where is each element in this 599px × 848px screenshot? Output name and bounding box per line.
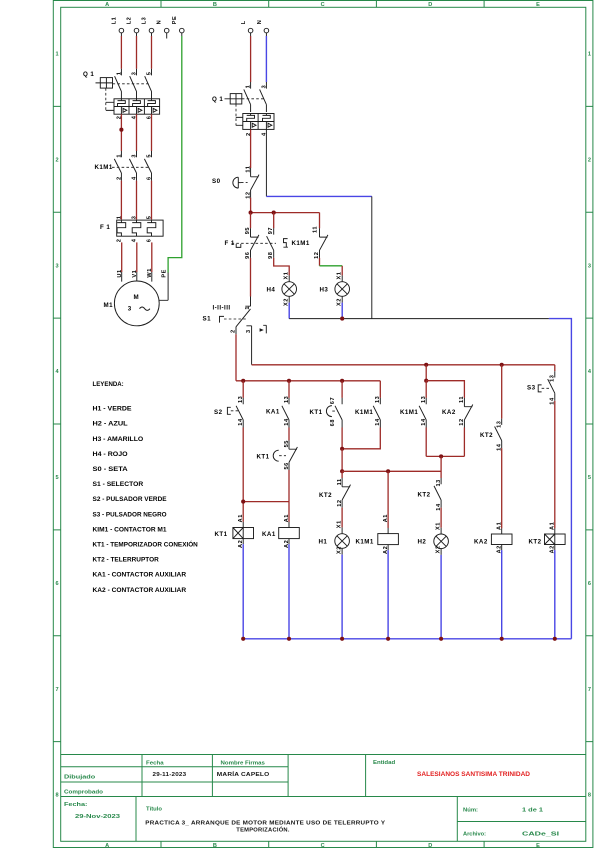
svg-text:68: 68 <box>330 419 336 426</box>
svg-text:3: 3 <box>56 263 59 269</box>
breaker Q1 magnetic elements <box>121 107 156 115</box>
terminal L1 <box>119 28 124 33</box>
wire split to K1M1 contact 2 <box>425 381 427 398</box>
svg-text:14: 14 <box>284 418 290 426</box>
breaker Q1 control handle box <box>225 94 242 104</box>
svg-text:L1: L1 <box>111 17 117 25</box>
breaker Q1 control pole 1 <box>244 82 251 112</box>
coil KA2 <box>491 534 512 545</box>
svg-text:1: 1 <box>588 52 591 58</box>
breaker Q1 control magnetic elements <box>251 122 272 130</box>
K1M1 linkage <box>112 166 149 168</box>
motor M1 <box>114 281 159 326</box>
breaker Q1 pole 1 <box>115 69 122 99</box>
svg-text:X1: X1 <box>435 522 441 530</box>
svg-text:5: 5 <box>146 72 152 76</box>
svg-text:D: D <box>428 843 432 848</box>
wire rail1 to KT1 <box>341 381 343 398</box>
wire K1M1 coil to rail <box>387 545 389 551</box>
svg-text:67: 67 <box>330 397 336 404</box>
pushbutton S3 contact <box>548 371 555 401</box>
svg-text:2: 2 <box>56 157 59 163</box>
svg-text:13: 13 <box>497 421 503 428</box>
pushbutton S2 contact <box>236 398 243 428</box>
svg-text:H4: H4 <box>267 287 276 294</box>
contact KA1 13-14 <box>282 398 289 428</box>
S0 link <box>238 182 241 184</box>
wire KT2 coil to rail <box>554 545 556 551</box>
wire to F1 97 <box>273 213 275 229</box>
wire F1 98 to H4 <box>274 258 290 276</box>
wire L3 top <box>151 33 153 36</box>
svg-text:D: D <box>428 2 432 8</box>
junction dot rail2 K1M1 branch <box>424 363 428 367</box>
svg-text:Núm:: Núm: <box>463 808 478 814</box>
svg-text:L: L <box>241 20 247 24</box>
selector S1 <box>236 297 266 365</box>
wire L1 top <box>120 33 122 36</box>
svg-text:Nombre Firmas: Nombre Firmas <box>221 761 265 767</box>
terminal N <box>164 28 169 33</box>
svg-text:Archivo:: Archivo: <box>463 832 486 838</box>
frame ruler numbers right <box>588 52 592 799</box>
svg-text:5: 5 <box>146 216 152 220</box>
svg-text:1: 1 <box>116 72 122 76</box>
terminal L3 <box>149 28 154 33</box>
svg-text:3: 3 <box>131 72 137 76</box>
wire F1 to motor V <box>136 242 138 272</box>
overload relay F1 box <box>117 220 163 236</box>
svg-text:KT2: KT2 <box>418 491 431 498</box>
wire K1M1 to F1 L3 <box>151 181 153 220</box>
svg-text:14: 14 <box>421 418 427 426</box>
wire KT2 12 to H1 <box>341 508 343 528</box>
svg-text:Comprobado: Comprobado <box>64 790 103 796</box>
svg-text:TEMPORIZACIÓN.: TEMPORIZACIÓN. <box>236 825 289 833</box>
svg-text:1: 1 <box>56 52 59 58</box>
node L distribution <box>251 212 320 214</box>
svg-text:S3: S3 <box>527 384 536 391</box>
svg-text:S3 - PULSADOR NEGRO: S3 - PULSADOR NEGRO <box>93 511 167 518</box>
svg-text:E: E <box>536 2 540 8</box>
wire rail1 to K1M1 contact <box>379 381 381 398</box>
wire K1M1 12 down <box>319 258 321 266</box>
svg-text:KT2 - TELERRUPTOR: KT2 - TELERRUPTOR <box>93 557 160 564</box>
wire node down <box>341 449 343 472</box>
svg-text:F 1: F 1 <box>100 224 110 231</box>
contact K1M1 11-12 <box>320 228 328 258</box>
svg-text:6: 6 <box>146 176 152 180</box>
wire F1 96 to S1 <box>250 258 252 297</box>
contact KT2 11-12 <box>342 478 350 508</box>
svg-text:11: 11 <box>459 396 465 403</box>
svg-text:A1: A1 <box>550 522 556 530</box>
svg-text:N: N <box>157 20 163 25</box>
svg-text:13: 13 <box>421 396 427 403</box>
wire down to H3 <box>341 266 343 276</box>
rail 3 <box>342 470 441 472</box>
svg-text:KA1: KA1 <box>262 531 276 538</box>
svg-text:M1: M1 <box>104 302 114 309</box>
junction dot <box>340 637 344 641</box>
wire S3 to KT2 coil <box>554 401 556 529</box>
svg-text:12: 12 <box>337 499 343 506</box>
svg-text:29-11-2023: 29-11-2023 <box>153 772 187 778</box>
svg-text:X2: X2 <box>336 546 342 554</box>
wire to K1M1 11 <box>319 213 321 229</box>
contactor K1M1 pole 1-2 <box>114 151 121 181</box>
svg-text:L3: L3 <box>142 17 148 25</box>
junction dot <box>241 637 245 641</box>
contactor K1M1 pole 5-6 <box>144 151 151 181</box>
wire K1M1 to F1 L2 <box>136 181 138 220</box>
contact KT2 13-14 mid <box>434 478 441 508</box>
svg-text:55: 55 <box>284 440 290 447</box>
wire S1 pin3 rail 2 <box>252 364 555 366</box>
svg-text:H2 - AZUL: H2 - AZUL <box>93 421 128 428</box>
svg-text:13: 13 <box>238 396 244 403</box>
contact KA2 11-12 <box>464 398 472 428</box>
K1M1 aux bracket <box>283 239 288 248</box>
svg-text:A1: A1 <box>284 514 290 522</box>
terminal L control <box>248 28 253 33</box>
coil KA1 <box>279 528 300 539</box>
svg-text:X1: X1 <box>336 520 342 528</box>
svg-text:3: 3 <box>131 216 137 220</box>
wire F1 to motor U <box>121 242 123 272</box>
lamp return rail blue <box>549 319 572 639</box>
wire L Q1 to S0 <box>250 129 252 168</box>
svg-text:56: 56 <box>284 462 290 469</box>
wire pair down <box>440 456 442 478</box>
F1 thermal elements <box>117 220 156 236</box>
svg-text:13: 13 <box>436 479 442 486</box>
frame ruler numbers left <box>56 52 60 799</box>
svg-text:Dibujado: Dibujado <box>64 775 96 781</box>
svg-text:B: B <box>213 843 217 848</box>
svg-text:X1: X1 <box>284 272 290 280</box>
svg-text:KA1 - CONTACTOR AUXILIAR: KA1 - CONTACTOR AUXILIAR <box>93 572 187 579</box>
node S2-KA1 <box>243 501 289 503</box>
wire S2 down to node <box>242 428 244 502</box>
svg-text:6: 6 <box>146 239 152 243</box>
contact F1 97-98 <box>267 228 274 258</box>
wire L down to Q1 <box>250 33 252 36</box>
svg-text:5: 5 <box>146 154 152 158</box>
svg-text:K1M1: K1M1 <box>292 240 310 247</box>
junction dot parallel split <box>424 379 428 383</box>
svg-text:H1 - VERDE: H1 - VERDE <box>93 406 133 413</box>
svg-text:CADe_SI: CADe_SI <box>522 832 560 838</box>
wire N down to Q1 <box>265 33 267 36</box>
KT1 55 link <box>279 455 286 457</box>
svg-text:3: 3 <box>588 263 591 269</box>
svg-text:C: C <box>321 2 325 8</box>
svg-text:95: 95 <box>245 227 251 234</box>
wire rail2 to S3 <box>554 365 556 371</box>
breaker Q1 control thermal elements <box>247 114 271 122</box>
wire K1M1 14 to node <box>342 428 380 449</box>
svg-text:2: 2 <box>116 239 122 243</box>
wire S1 pin2 down <box>235 334 237 381</box>
svg-text:K1M1: K1M1 <box>355 409 373 416</box>
wire KT1 56 down <box>288 470 290 502</box>
frame ruler letters bottom <box>105 843 540 848</box>
junction dot KT1 <box>340 379 344 383</box>
wire KA2 coil to rail <box>501 545 503 551</box>
svg-text:X2: X2 <box>435 545 441 553</box>
lamp H4 <box>282 282 297 297</box>
lamp H3 <box>335 282 350 297</box>
S1 link <box>224 318 246 320</box>
junction dot <box>241 500 245 504</box>
wire split to KA2 contact <box>426 381 464 398</box>
svg-text:K1M1: K1M1 <box>356 539 374 546</box>
svg-text:8: 8 <box>56 793 59 799</box>
junction dot H3 return <box>340 317 344 321</box>
wire S0 to node <box>250 198 252 213</box>
svg-text:H3 - AMARILLO: H3 - AMARILLO <box>93 436 144 443</box>
svg-text:98: 98 <box>268 252 274 259</box>
coil KT2 <box>545 534 566 545</box>
svg-text:MARÍA CAPELO: MARÍA CAPELO <box>217 770 270 778</box>
svg-text:12: 12 <box>314 252 320 259</box>
svg-text:KT1: KT1 <box>257 454 270 461</box>
junction dot rail3 <box>340 469 344 473</box>
S1 handle <box>220 316 225 322</box>
wire N down black <box>371 196 373 318</box>
wire K1M1 to F1 L1 <box>120 181 122 220</box>
svg-text:A1: A1 <box>238 514 244 522</box>
svg-text:5: 5 <box>588 475 591 481</box>
terminal PE <box>180 28 185 33</box>
wire Q1 to K1M1 L2 <box>136 114 138 151</box>
breaker Q1 control trip box <box>236 114 274 130</box>
svg-text:S0: S0 <box>212 178 221 185</box>
wire N pole down <box>265 129 267 196</box>
svg-text:3: 3 <box>128 305 132 312</box>
svg-text:1: 1 <box>116 216 122 220</box>
svg-text:3: 3 <box>261 85 267 89</box>
junction dot <box>386 637 390 641</box>
contact K1M1 13-14 <box>373 398 380 428</box>
svg-text:S1: S1 <box>203 316 212 323</box>
svg-text:B: B <box>213 2 217 8</box>
title block texts <box>64 760 560 838</box>
svg-text:KT2: KT2 <box>319 492 332 499</box>
svg-text:KA2: KA2 <box>442 409 456 416</box>
wire rail2 to KT2 contact <box>501 365 503 419</box>
junction dot K1M1 coil <box>386 469 390 473</box>
PE black lead into motor <box>159 273 168 301</box>
svg-text:1: 1 <box>245 306 251 310</box>
contact KT1 55-56 timed <box>289 440 297 470</box>
wire H4 X2 blue <box>288 296 290 302</box>
junction dot KA1 <box>287 379 291 383</box>
wire L2 top <box>136 33 138 36</box>
rail 1 from S1 pin2 <box>236 380 380 382</box>
lamp H2 <box>434 534 449 549</box>
wire KA1 coil to rail <box>288 539 290 545</box>
coil K1M1 <box>378 534 399 545</box>
KT1 link <box>332 410 338 412</box>
svg-text:5: 5 <box>56 475 59 481</box>
svg-text:KT2: KT2 <box>480 432 493 439</box>
svg-text:X1: X1 <box>337 272 343 280</box>
svg-text:A: A <box>105 843 109 848</box>
contactor K1M1 pole 3-4 <box>129 151 136 181</box>
terminal L2 <box>134 28 139 33</box>
emergency stop S0 contact <box>251 168 259 198</box>
svg-text:7: 7 <box>588 687 591 693</box>
svg-text:Título: Título <box>146 807 162 813</box>
wire PE green <box>181 33 183 36</box>
svg-text:L2: L2 <box>127 17 133 25</box>
title block grid <box>61 755 586 842</box>
svg-text:11: 11 <box>337 478 343 485</box>
svg-text:14: 14 <box>375 418 381 426</box>
svg-text:1: 1 <box>246 85 252 89</box>
svg-text:K1M1: K1M1 <box>400 409 418 416</box>
svg-text:S2: S2 <box>214 409 223 416</box>
terminal N control <box>264 28 269 33</box>
svg-text:PE: PE <box>162 269 168 278</box>
breaker Q1 pole 3 <box>130 69 137 99</box>
svg-text:Entidad: Entidad <box>373 760 396 766</box>
svg-text:K1M1: K1M1 <box>95 164 113 171</box>
svg-text:4: 4 <box>131 176 137 180</box>
frame ruler letters top <box>105 2 540 8</box>
wire rail2 branch down <box>425 365 427 381</box>
junction dot pair <box>439 454 443 458</box>
svg-text:2: 2 <box>116 176 122 180</box>
svg-text:KA2 - CONTACTOR AUXILIAR: KA2 - CONTACTOR AUXILIAR <box>93 587 187 594</box>
contact K1M1 13-14 second <box>419 398 426 428</box>
svg-text:KT2: KT2 <box>529 538 542 545</box>
wire H2 to rail <box>440 549 442 555</box>
svg-text:E: E <box>536 843 540 848</box>
svg-text:29-Nov-2023: 29-Nov-2023 <box>75 814 121 820</box>
svg-text:A1: A1 <box>497 522 503 530</box>
junction dot <box>500 637 504 641</box>
svg-text:14: 14 <box>238 418 244 426</box>
wire parallel pair bottoms <box>426 428 464 457</box>
wire KT2 14 to H2 <box>440 508 442 528</box>
svg-text:A1: A1 <box>383 514 389 522</box>
svg-text:PRACTICA 3_ ARRANQUE DE MOTOR: PRACTICA 3_ ARRANQUE DE MOTOR MEDIANTE U… <box>145 821 385 827</box>
svg-text:3: 3 <box>246 329 252 333</box>
breaker Q1 handle box <box>96 78 113 89</box>
coil KT1 <box>233 528 254 539</box>
S2 link <box>231 410 239 412</box>
svg-text:7: 7 <box>56 687 59 693</box>
motor stubs <box>122 272 152 282</box>
wire rail1 to S2 <box>242 381 244 398</box>
breaker Q1 control pole 3 <box>260 82 267 112</box>
svg-text:Q 1: Q 1 <box>83 71 94 78</box>
junction dot KT1-K1M1 <box>340 447 344 451</box>
svg-text:8: 8 <box>588 793 591 799</box>
breaker Q1 thermal elements <box>118 99 156 107</box>
lamp return rail black <box>289 318 549 320</box>
svg-text:97: 97 <box>268 227 274 234</box>
breaker Q1 pole 5 <box>145 69 152 99</box>
S2 cap <box>227 407 230 414</box>
lamp H1 <box>335 534 350 549</box>
svg-text:KT1: KT1 <box>310 409 323 416</box>
svg-text:2: 2 <box>230 329 236 333</box>
svg-text:LEYENDA:: LEYENDA: <box>93 381 124 388</box>
svg-text:Fecha: Fecha <box>146 761 164 767</box>
breaker Q1 control linkage <box>236 99 264 126</box>
S3 link <box>542 387 550 389</box>
svg-text:C: C <box>321 843 325 848</box>
svg-text:M: M <box>134 294 140 301</box>
svg-text:11: 11 <box>312 226 318 233</box>
svg-text:3: 3 <box>131 154 137 158</box>
breaker Q1 trip box <box>106 99 160 114</box>
KT1 timer arc <box>326 406 332 417</box>
svg-text:SALESIANOS SANTISIMA TRINIDAD: SALESIANOS SANTISIMA TRINIDAD <box>417 772 531 778</box>
svg-text:96: 96 <box>245 252 251 259</box>
wire Q1 to K1M1 L1 <box>120 114 122 151</box>
svg-text:S1 - SELECTOR: S1 - SELECTOR <box>93 481 144 488</box>
contact KT1 67-68 timed <box>335 398 342 428</box>
svg-text:1 de 1: 1 de 1 <box>522 808 544 814</box>
svg-text:H2: H2 <box>418 538 427 545</box>
wire H3 X2 blue <box>341 296 343 302</box>
svg-text:13: 13 <box>375 396 381 403</box>
wire to F1 95 <box>250 213 252 229</box>
junction dot <box>439 637 443 641</box>
wire rail1 to KA1 <box>288 381 290 398</box>
frame ruler ticks top/bottom <box>161 1 484 848</box>
wire N stub <box>166 33 168 39</box>
wire KT2 right to KA2 coil <box>501 448 503 528</box>
svg-text:6: 6 <box>588 581 591 587</box>
wire N across blue <box>266 195 371 197</box>
svg-text:PE: PE <box>172 16 178 25</box>
svg-text:H4 - ROJO: H4 - ROJO <box>93 451 128 458</box>
svg-text:KA2: KA2 <box>474 538 488 545</box>
svg-text:KT1: KT1 <box>215 531 228 538</box>
svg-text:I-II-III: I-II-III <box>213 305 231 312</box>
wire KT2 11 stub <box>341 471 343 478</box>
svg-text:13: 13 <box>550 375 556 382</box>
svg-text:A: A <box>105 2 109 8</box>
junction dot S2 <box>241 379 245 383</box>
svg-text:2: 2 <box>588 157 591 163</box>
svg-text:H1: H1 <box>319 539 328 546</box>
frame ruler ticks left/right <box>53 106 593 741</box>
neutral bottom rail <box>243 638 571 640</box>
junction dot rail2 KT2 branch <box>500 363 504 367</box>
breaker Q1 linkage <box>106 84 149 111</box>
svg-text:N: N <box>257 20 263 25</box>
F1 trip glyph <box>236 244 241 248</box>
wire KT1 coil to rail <box>242 539 244 545</box>
svg-text:S0 - SETA: S0 - SETA <box>93 466 128 473</box>
svg-text:1: 1 <box>116 154 122 158</box>
svg-text:H3: H3 <box>320 287 329 294</box>
S0 mushroom head <box>233 177 238 188</box>
contact KT2 13-14 right <box>495 419 502 449</box>
svg-text:KT1 - TEMPORIZADOR CONEXIÓN: KT1 - TEMPORIZADOR CONEXIÓN <box>93 540 199 549</box>
svg-text:Q 1: Q 1 <box>212 96 223 103</box>
junction dot <box>249 211 253 215</box>
junction dot <box>553 637 557 641</box>
junction dot <box>287 637 291 641</box>
